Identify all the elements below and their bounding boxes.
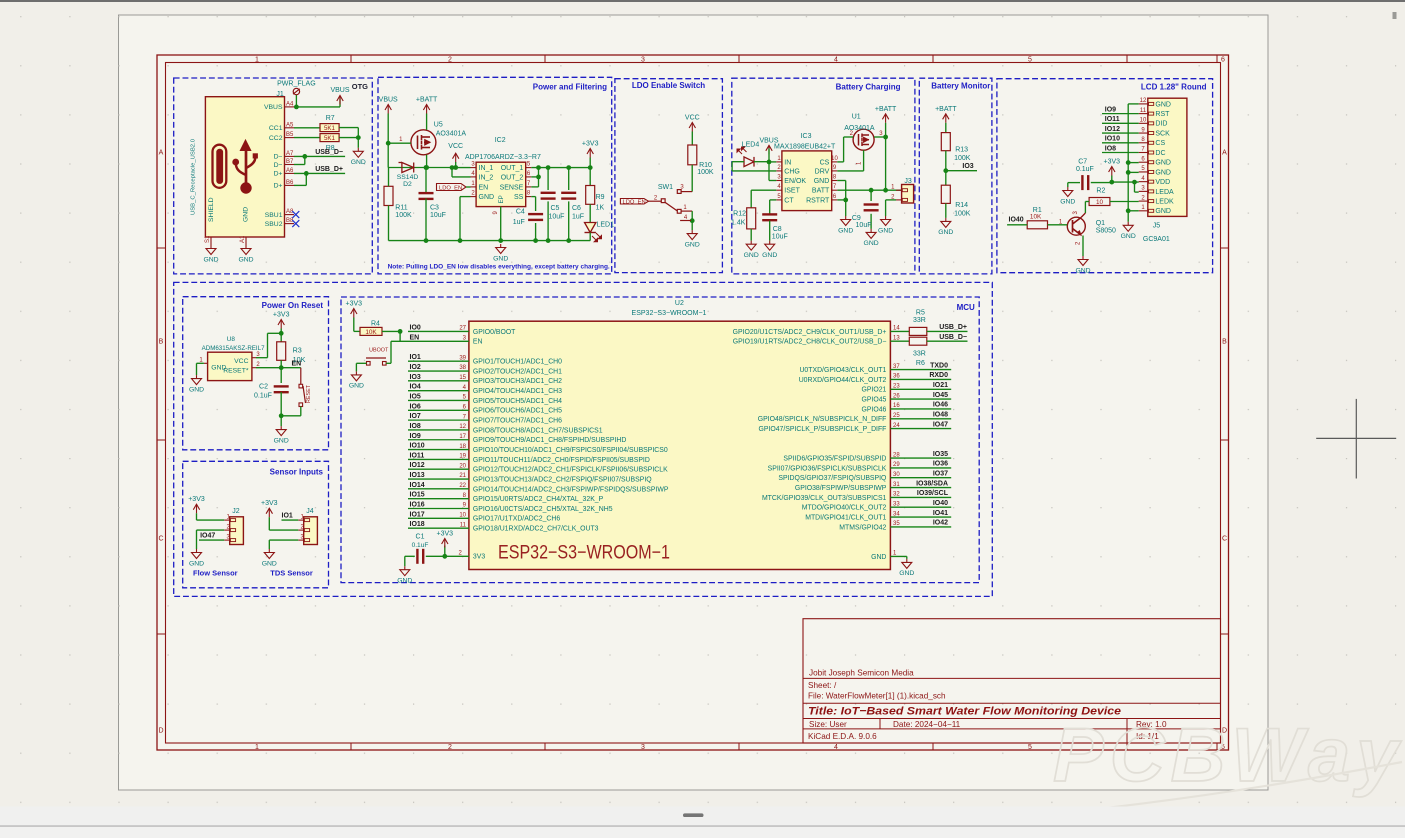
svg-text:Sheet: /: Sheet: / bbox=[808, 681, 837, 690]
svg-text:12: 12 bbox=[459, 424, 466, 430]
svg-text:D+: D+ bbox=[274, 183, 283, 190]
svg-text:SBU2: SBU2 bbox=[265, 221, 283, 228]
svg-text:33: 33 bbox=[893, 501, 900, 507]
svg-text:37: 37 bbox=[893, 364, 900, 370]
svg-text:GPIO8/TOUCH8/ADC1_CH7/SUBSPICS: GPIO8/TOUCH8/ADC1_CH7/SUBSPICS1 bbox=[473, 427, 603, 434]
svg-text:USB_D+: USB_D+ bbox=[315, 166, 343, 173]
svg-text:ISET: ISET bbox=[784, 188, 800, 195]
svg-text:R4: R4 bbox=[371, 321, 380, 328]
svg-text:IO11: IO11 bbox=[410, 452, 425, 459]
svg-text:Power On Reset: Power On Reset bbox=[262, 301, 324, 310]
svg-text:B5: B5 bbox=[286, 132, 294, 138]
svg-text:IO7: IO7 bbox=[410, 413, 421, 420]
svg-text:LDO_EN: LDO_EN bbox=[439, 185, 462, 191]
svg-text:GND: GND bbox=[1155, 208, 1171, 215]
svg-text:GND: GND bbox=[1121, 233, 1136, 240]
svg-text:GND: GND bbox=[189, 386, 204, 393]
svg-text:IO2: IO2 bbox=[410, 364, 421, 371]
svg-text:23: 23 bbox=[893, 384, 900, 390]
svg-text:IO1: IO1 bbox=[410, 354, 421, 361]
svg-text:GPIO6/TOUCH6/ADC1_CH5: GPIO6/TOUCH6/ADC1_CH5 bbox=[473, 408, 562, 415]
svg-text:R14: R14 bbox=[955, 202, 968, 209]
svg-text:IO40: IO40 bbox=[933, 500, 948, 507]
svg-text:C5: C5 bbox=[551, 205, 560, 212]
svg-text:GND: GND bbox=[351, 159, 366, 166]
svg-text:Jobit Joseph Semicon Media: Jobit Joseph Semicon Media bbox=[809, 669, 914, 678]
svg-text:PCBWay: PCBWay bbox=[1053, 713, 1404, 798]
svg-text:IO16: IO16 bbox=[410, 502, 425, 509]
svg-text:10uF: 10uF bbox=[430, 212, 446, 219]
svg-text:GND: GND bbox=[1155, 101, 1171, 108]
svg-text:IC2: IC2 bbox=[495, 137, 506, 144]
svg-text:J3: J3 bbox=[904, 178, 912, 185]
svg-text:EP: EP bbox=[498, 195, 505, 203]
svg-text:GPIO19/U1RTS/ADC2_CH8/CLK_OUT2: GPIO19/U1RTS/ADC2_CH8/CLK_OUT2/USB_D− bbox=[733, 339, 887, 346]
svg-text:SS: SS bbox=[514, 194, 524, 201]
svg-text:MTCK/GPIO39/CLK_OUT3/SUBSPICS1: MTCK/GPIO39/CLK_OUT3/SUBSPICS1 bbox=[762, 495, 887, 502]
svg-text:IO21: IO21 bbox=[933, 382, 948, 389]
svg-text:R12: R12 bbox=[733, 211, 746, 218]
svg-text:31: 31 bbox=[893, 482, 900, 488]
svg-text:GPIO4/TOUCH4/ADC1_CH3: GPIO4/TOUCH4/ADC1_CH3 bbox=[473, 388, 562, 395]
svg-text:100K: 100K bbox=[954, 211, 971, 218]
svg-text:IO39/SCL: IO39/SCL bbox=[917, 490, 949, 497]
svg-text:GPIO20/U1CTS/ADC2_CH9/CLK_OUT1: GPIO20/U1CTS/ADC2_CH9/CLK_OUT1/USB_D+ bbox=[733, 329, 887, 336]
svg-text:10K: 10K bbox=[365, 329, 377, 336]
svg-text:OTG: OTG bbox=[352, 82, 368, 91]
svg-text:10: 10 bbox=[831, 156, 838, 162]
svg-text:IO10: IO10 bbox=[410, 443, 425, 450]
svg-text:+BATT: +BATT bbox=[935, 106, 957, 113]
svg-text:S8050: S8050 bbox=[1096, 228, 1116, 235]
svg-text:D: D bbox=[158, 728, 163, 735]
svg-text:IO37: IO37 bbox=[933, 471, 948, 478]
svg-text:+3V3: +3V3 bbox=[1104, 159, 1121, 166]
svg-text:U1: U1 bbox=[852, 114, 861, 121]
svg-text:IO40: IO40 bbox=[1009, 217, 1024, 224]
svg-text:USB_D+: USB_D+ bbox=[939, 324, 967, 331]
svg-text:B: B bbox=[159, 339, 164, 346]
svg-text:GND: GND bbox=[479, 194, 495, 201]
svg-text:RESET: RESET bbox=[306, 384, 312, 403]
svg-text:EN: EN bbox=[410, 334, 420, 341]
svg-text:17: 17 bbox=[459, 434, 466, 440]
svg-text:Date: 2024−04−11: Date: 2024−04−11 bbox=[893, 720, 961, 729]
svg-text:SCK: SCK bbox=[1155, 130, 1170, 137]
svg-text:C: C bbox=[1222, 536, 1227, 543]
svg-text:GC9A01: GC9A01 bbox=[1143, 236, 1170, 243]
svg-text:GPIO9/TOUCH9/ADC1_CH8/FSPIHD/S: GPIO9/TOUCH9/ADC1_CH8/FSPIHD/SUBSPIHD bbox=[473, 437, 626, 444]
svg-text:39: 39 bbox=[459, 355, 466, 361]
svg-text:R10: R10 bbox=[699, 162, 712, 169]
svg-text:IC3: IC3 bbox=[801, 133, 812, 140]
svg-text:IO3: IO3 bbox=[410, 374, 421, 381]
svg-text:C8: C8 bbox=[773, 226, 782, 233]
svg-text:GPIO21: GPIO21 bbox=[861, 387, 886, 394]
svg-text:J1: J1 bbox=[276, 91, 284, 98]
svg-text:5K1: 5K1 bbox=[324, 125, 336, 132]
svg-text:+3V3: +3V3 bbox=[582, 141, 599, 148]
svg-text:R3: R3 bbox=[293, 346, 302, 355]
svg-text:U5: U5 bbox=[434, 122, 443, 129]
svg-text:IO4: IO4 bbox=[410, 384, 421, 391]
svg-text:Size: User: Size: User bbox=[809, 720, 847, 729]
svg-text:SHIELD: SHIELD bbox=[208, 197, 215, 222]
svg-text:IO47: IO47 bbox=[933, 421, 948, 428]
svg-text:+3V3: +3V3 bbox=[261, 500, 278, 507]
svg-text:RSTRT: RSTRT bbox=[806, 197, 830, 204]
svg-text:18: 18 bbox=[459, 444, 466, 450]
svg-text:ESP32−S3−WROOM−1: ESP32−S3−WROOM−1 bbox=[632, 310, 707, 317]
svg-text:0.1uF: 0.1uF bbox=[254, 393, 272, 400]
svg-text:VBUS: VBUS bbox=[264, 104, 283, 111]
svg-text:Battery Monitor: Battery Monitor bbox=[931, 82, 990, 91]
svg-text:R9: R9 bbox=[596, 194, 605, 201]
svg-text:1: 1 bbox=[255, 57, 259, 64]
svg-text:GPIO0/BOOT: GPIO0/BOOT bbox=[473, 329, 516, 336]
svg-text:GND: GND bbox=[1075, 267, 1090, 274]
svg-text:GND: GND bbox=[397, 578, 412, 585]
svg-text:GND: GND bbox=[762, 252, 777, 259]
svg-text:IO17: IO17 bbox=[410, 511, 425, 518]
svg-text:22: 22 bbox=[459, 483, 466, 489]
svg-text:GPIO10/TOUCH10/ADC1_CH9/FSPICS: GPIO10/TOUCH10/ADC1_CH9/FSPICS0/FSPII04/… bbox=[473, 447, 668, 454]
svg-text:U2: U2 bbox=[675, 300, 684, 307]
svg-text:LCD 1.28" Round: LCD 1.28" Round bbox=[1141, 82, 1207, 91]
svg-text:34: 34 bbox=[893, 511, 900, 517]
svg-text:+BATT: +BATT bbox=[416, 97, 438, 104]
svg-text:Q1: Q1 bbox=[1096, 220, 1105, 227]
svg-text:SBU1: SBU1 bbox=[265, 212, 283, 219]
svg-text:30: 30 bbox=[893, 472, 900, 478]
svg-text:CS: CS bbox=[820, 159, 830, 166]
svg-text:TXD0: TXD0 bbox=[930, 362, 948, 369]
svg-text:C: C bbox=[158, 536, 163, 543]
svg-text:GND: GND bbox=[878, 227, 893, 234]
svg-text:R5: R5 bbox=[916, 310, 925, 317]
svg-text:MTMS/GPIO42: MTMS/GPIO42 bbox=[839, 524, 886, 531]
svg-text:10: 10 bbox=[1140, 118, 1147, 124]
svg-text:35: 35 bbox=[893, 521, 900, 527]
svg-text:29: 29 bbox=[893, 462, 900, 468]
svg-text:DID: DID bbox=[1155, 121, 1167, 128]
svg-text:4: 4 bbox=[834, 57, 838, 64]
svg-text:IO38/SDA: IO38/SDA bbox=[916, 480, 948, 487]
svg-text:0.1uF: 0.1uF bbox=[1076, 166, 1094, 173]
svg-text:2: 2 bbox=[448, 744, 452, 751]
svg-text:EN: EN bbox=[473, 339, 483, 346]
svg-text:IO6: IO6 bbox=[410, 403, 421, 410]
svg-text:GPIO11/TOUCH11/ADC2_CH0/FSPID/: GPIO11/TOUCH11/ADC2_CH0/FSPID/FSPII05/SU… bbox=[473, 457, 650, 464]
svg-text:100K: 100K bbox=[395, 212, 412, 219]
svg-text:RXD0: RXD0 bbox=[929, 372, 948, 379]
svg-text:GND: GND bbox=[274, 437, 289, 444]
svg-text:20: 20 bbox=[459, 463, 466, 469]
svg-text:IO47: IO47 bbox=[200, 533, 215, 540]
svg-text:USB_D−: USB_D− bbox=[315, 149, 343, 156]
svg-text:CC1: CC1 bbox=[269, 125, 283, 132]
svg-text:GPIO13/TOUCH13/ADC2_CH2/FSPIQ/: GPIO13/TOUCH13/ADC2_CH2/FSPIQ/FSPII07/SU… bbox=[473, 476, 652, 483]
svg-text:IN: IN bbox=[784, 159, 791, 166]
svg-text:GPIO12/TOUCH12/ADC2_CH1/FSPICL: GPIO12/TOUCH12/ADC2_CH1/FSPICLK/FSPII06/… bbox=[473, 467, 668, 474]
svg-text:R2: R2 bbox=[1096, 188, 1105, 195]
svg-text:LDO_EN: LDO_EN bbox=[623, 199, 646, 205]
svg-text:U0RXD/GPIO44/CLK_OUT2: U0RXD/GPIO44/CLK_OUT2 bbox=[799, 377, 887, 384]
svg-text:MAX1898EUB42+T: MAX1898EUB42+T bbox=[774, 144, 836, 151]
svg-text:LEDA: LEDA bbox=[1155, 189, 1174, 196]
svg-text:GND: GND bbox=[493, 255, 508, 262]
svg-text:UBOOT: UBOOT bbox=[369, 348, 389, 354]
svg-text:IO13: IO13 bbox=[410, 472, 425, 479]
svg-text:CS: CS bbox=[1155, 140, 1165, 147]
svg-text:26: 26 bbox=[893, 393, 900, 399]
svg-text:U0TXD/GPIO43/CLK_OUT1: U0TXD/GPIO43/CLK_OUT1 bbox=[799, 367, 886, 374]
svg-text:IO1: IO1 bbox=[282, 513, 293, 520]
svg-text:GPIO3/TOUCH3/ADC1_CH2: GPIO3/TOUCH3/ADC1_CH2 bbox=[473, 378, 562, 385]
svg-text:IO18: IO18 bbox=[410, 521, 425, 528]
svg-text:GND: GND bbox=[243, 207, 250, 222]
svg-text:IO42: IO42 bbox=[933, 520, 948, 527]
svg-text:SS14D: SS14D bbox=[397, 174, 419, 181]
svg-text:C1: C1 bbox=[416, 534, 425, 541]
svg-text:IO5: IO5 bbox=[410, 393, 421, 400]
svg-text:GND: GND bbox=[899, 570, 914, 577]
svg-text:A6: A6 bbox=[286, 168, 294, 174]
svg-text:GND: GND bbox=[864, 240, 879, 247]
svg-text:VCC: VCC bbox=[685, 115, 700, 122]
svg-text:+3V3: +3V3 bbox=[346, 301, 363, 308]
svg-text:GND: GND bbox=[871, 554, 886, 561]
svg-text:27: 27 bbox=[459, 326, 466, 332]
svg-text:SPII07/GPIO36/FSPICLK/SUBSPICL: SPII07/GPIO36/FSPICLK/SUBSPICLK bbox=[768, 465, 887, 472]
svg-text:10K: 10K bbox=[1030, 214, 1042, 221]
svg-text:IO35: IO35 bbox=[933, 451, 948, 458]
svg-text:1: 1 bbox=[255, 744, 259, 751]
svg-text:16: 16 bbox=[893, 403, 900, 409]
svg-text:C2: C2 bbox=[259, 384, 268, 391]
svg-text:B6: B6 bbox=[286, 180, 294, 186]
svg-text:C3: C3 bbox=[430, 205, 439, 212]
svg-text:+3V3: +3V3 bbox=[273, 312, 290, 319]
svg-text:VCC: VCC bbox=[234, 358, 248, 365]
svg-text:LED1: LED1 bbox=[597, 221, 615, 228]
svg-text:+BATT: +BATT bbox=[875, 106, 897, 113]
svg-text:11: 11 bbox=[460, 522, 467, 528]
svg-text:B7: B7 bbox=[286, 159, 294, 165]
svg-text:ESP32−S3−WROOM−1: ESP32−S3−WROOM−1 bbox=[498, 541, 670, 563]
svg-text:IN_1: IN_1 bbox=[479, 165, 494, 172]
svg-text:VCC: VCC bbox=[448, 143, 463, 150]
svg-text:TDS Sensor: TDS Sensor bbox=[270, 569, 313, 578]
svg-text:J2: J2 bbox=[232, 508, 240, 515]
svg-text:38: 38 bbox=[459, 365, 466, 371]
svg-text:10uF: 10uF bbox=[856, 222, 872, 229]
svg-text:MTDO/GPIO40/CLK_OUT2: MTDO/GPIO40/CLK_OUT2 bbox=[802, 505, 887, 512]
svg-text:R7: R7 bbox=[326, 115, 335, 122]
svg-text:OUT_1: OUT_1 bbox=[501, 165, 524, 172]
svg-text:C4: C4 bbox=[516, 209, 525, 216]
svg-text:GPIO17/U1TXD/ADC2_CH6: GPIO17/U1TXD/ADC2_CH6 bbox=[473, 516, 560, 523]
svg-text:+3V3: +3V3 bbox=[437, 531, 454, 538]
svg-text:EN: EN bbox=[292, 361, 302, 368]
svg-text:LEDK: LEDK bbox=[1155, 199, 1174, 206]
svg-text:IO45: IO45 bbox=[933, 392, 948, 399]
svg-text:1uF: 1uF bbox=[513, 219, 525, 226]
svg-text:GPIO18/U1RXD/ADC2_CH7/CLK_OUT3: GPIO18/U1RXD/ADC2_CH7/CLK_OUT3 bbox=[473, 526, 599, 533]
svg-text:U8: U8 bbox=[227, 336, 236, 343]
svg-text:100K: 100K bbox=[954, 155, 971, 162]
svg-text:GPIO46: GPIO46 bbox=[861, 406, 886, 413]
svg-text:MCU: MCU bbox=[957, 303, 975, 312]
svg-text:13: 13 bbox=[893, 335, 900, 341]
svg-text:GPIO45: GPIO45 bbox=[861, 397, 886, 404]
svg-text:36: 36 bbox=[893, 374, 900, 380]
svg-text:CC2: CC2 bbox=[269, 135, 283, 142]
svg-text:EN/OK: EN/OK bbox=[784, 178, 806, 185]
svg-text:GPIO14/TOUCH14/ADC2_CH3/FSPIWP: GPIO14/TOUCH14/ADC2_CH3/FSPIWP/FSPIDQS/S… bbox=[473, 486, 669, 493]
svg-text:AO3401A: AO3401A bbox=[436, 131, 467, 138]
svg-text:SPIDQS/GPIO37/FSPIQ/SUBSPIQ: SPIDQS/GPIO37/FSPIQ/SUBSPIQ bbox=[778, 475, 887, 482]
svg-text:IO9: IO9 bbox=[1105, 106, 1116, 113]
svg-text:USB_D−: USB_D− bbox=[939, 334, 967, 341]
svg-text:A1: A1 bbox=[240, 235, 246, 243]
svg-text:GPIO5/TOUCH5/ADC1_CH4: GPIO5/TOUCH5/ADC1_CH4 bbox=[473, 398, 562, 405]
svg-text:VBUS: VBUS bbox=[379, 97, 398, 104]
svg-text:GPIO48/SPICLK_N/SUBSPICLK_N_DI: GPIO48/SPICLK_N/SUBSPICLK_N_DIFF bbox=[758, 416, 887, 423]
svg-text:+3V3: +3V3 bbox=[188, 496, 205, 503]
svg-text:IO8: IO8 bbox=[410, 423, 421, 430]
svg-text:3: 3 bbox=[641, 57, 645, 64]
svg-text:GND: GND bbox=[838, 227, 853, 234]
svg-text:0.1uF: 0.1uF bbox=[412, 542, 429, 549]
svg-text:KiCad E.D.A. 9.0.6: KiCad E.D.A. 9.0.6 bbox=[808, 732, 877, 741]
svg-text:CT: CT bbox=[784, 197, 794, 204]
svg-text:19: 19 bbox=[459, 454, 466, 460]
svg-text:OUT_2: OUT_2 bbox=[501, 174, 524, 181]
svg-text:GND: GND bbox=[814, 178, 830, 185]
svg-text:GND: GND bbox=[1155, 169, 1171, 176]
svg-text:DC: DC bbox=[1155, 150, 1165, 157]
svg-text:6: 6 bbox=[1221, 57, 1225, 64]
svg-text:Sensor Inputs: Sensor Inputs bbox=[270, 468, 324, 477]
svg-text:12: 12 bbox=[1140, 98, 1147, 104]
svg-text:GND: GND bbox=[1060, 198, 1075, 205]
svg-text:IO12: IO12 bbox=[1105, 126, 1120, 133]
svg-text:GPIO1/TOUCH1/ADC1_CH0: GPIO1/TOUCH1/ADC1_CH0 bbox=[473, 359, 562, 366]
svg-text:LDO Enable Switch: LDO Enable Switch bbox=[632, 81, 705, 90]
svg-text:GPIO16/U0CTS/ADC2_CH5/XTAL_32K: GPIO16/U0CTS/ADC2_CH5/XTAL_32K_NH5 bbox=[473, 506, 613, 513]
svg-text:GPIO7/TOUCH7/ADC1_CH6: GPIO7/TOUCH7/ADC1_CH6 bbox=[473, 418, 562, 425]
svg-text:B: B bbox=[1222, 339, 1227, 346]
svg-text:1uF: 1uF bbox=[572, 214, 584, 221]
svg-text:33R: 33R bbox=[913, 317, 926, 324]
svg-text:CHG: CHG bbox=[784, 168, 800, 175]
svg-text:File: WaterFlowMeter[1] (1).ki: File: WaterFlowMeter[1] (1).kicad_sch bbox=[808, 692, 946, 701]
svg-text:R6: R6 bbox=[916, 360, 925, 367]
svg-text:D−: D− bbox=[274, 162, 283, 169]
svg-text:MTDI/GPIO41/CLK_OUT1: MTDI/GPIO41/CLK_OUT1 bbox=[805, 515, 886, 522]
svg-text:J4: J4 bbox=[306, 508, 314, 515]
svg-text:D+: D+ bbox=[274, 171, 283, 178]
svg-text:28: 28 bbox=[893, 452, 900, 458]
svg-text:3V3: 3V3 bbox=[473, 554, 485, 561]
svg-text:GND: GND bbox=[349, 383, 364, 390]
svg-text:IO12: IO12 bbox=[410, 462, 425, 469]
svg-text:PWR_FLAG: PWR_FLAG bbox=[277, 81, 316, 88]
svg-text:C9: C9 bbox=[852, 215, 861, 222]
svg-text:Flow Sensor: Flow Sensor bbox=[193, 569, 238, 578]
svg-text:Power and Filtering: Power and Filtering bbox=[533, 83, 607, 92]
svg-text:25: 25 bbox=[893, 413, 900, 419]
svg-text:C6: C6 bbox=[572, 205, 581, 212]
svg-text:10uF: 10uF bbox=[772, 234, 788, 241]
svg-text:D2: D2 bbox=[403, 181, 412, 188]
svg-text:GND: GND bbox=[262, 560, 277, 567]
svg-text:D−: D− bbox=[274, 154, 283, 161]
svg-text:33R: 33R bbox=[913, 351, 926, 358]
svg-text:A: A bbox=[1222, 150, 1227, 157]
svg-text:IO8: IO8 bbox=[1105, 145, 1116, 152]
svg-text:GPIO47/SPICLK_P/SUBSPICLK_P_DI: GPIO47/SPICLK_P/SUBSPICLK_P_DIFF bbox=[758, 426, 886, 433]
svg-text:RESET*: RESET* bbox=[223, 368, 249, 375]
svg-text:15: 15 bbox=[459, 375, 466, 381]
svg-text:4: 4 bbox=[834, 744, 838, 751]
svg-text:21: 21 bbox=[459, 473, 466, 479]
svg-text:J5: J5 bbox=[1153, 223, 1161, 230]
svg-text:IO48: IO48 bbox=[933, 412, 948, 419]
svg-text:GND: GND bbox=[203, 256, 218, 263]
svg-text:GPIO38/FSPIWP/SUBSPIWP: GPIO38/FSPIWP/SUBSPIWP bbox=[795, 485, 887, 492]
svg-text:GND: GND bbox=[189, 560, 204, 567]
svg-text:IN_2: IN_2 bbox=[479, 174, 494, 181]
svg-text:5: 5 bbox=[1028, 57, 1032, 64]
svg-text:S1: S1 bbox=[205, 235, 211, 243]
svg-text:VBUS: VBUS bbox=[330, 87, 349, 94]
svg-text:VBUS: VBUS bbox=[759, 137, 778, 144]
svg-text:Note: Pulling LDO_EN low disab: Note: Pulling LDO_EN low disables everyt… bbox=[388, 263, 610, 270]
svg-text:10: 10 bbox=[459, 513, 466, 519]
svg-text:C7: C7 bbox=[1078, 159, 1087, 166]
svg-text:IO0: IO0 bbox=[410, 324, 421, 331]
svg-text:SENSE: SENSE bbox=[500, 184, 524, 191]
svg-text:ADP1706ARDZ−3.3−R7: ADP1706ARDZ−3.3−R7 bbox=[465, 154, 541, 161]
svg-text:IO41: IO41 bbox=[933, 510, 948, 517]
svg-text:GND: GND bbox=[685, 241, 700, 248]
svg-text:BATT: BATT bbox=[812, 188, 830, 195]
svg-text:1.4K: 1.4K bbox=[731, 220, 746, 227]
svg-text:A7: A7 bbox=[286, 151, 294, 157]
svg-text:A5: A5 bbox=[286, 122, 294, 128]
svg-text:3: 3 bbox=[641, 744, 645, 751]
svg-text:EN: EN bbox=[479, 184, 489, 191]
svg-text:A4: A4 bbox=[286, 101, 294, 107]
svg-text:5: 5 bbox=[1028, 744, 1032, 751]
svg-text:GND: GND bbox=[744, 252, 759, 259]
svg-text:ADM6315AKSZ-REIL7: ADM6315AKSZ-REIL7 bbox=[202, 345, 265, 352]
svg-text:Battery Charging: Battery Charging bbox=[836, 83, 901, 92]
svg-text:32: 32 bbox=[893, 492, 900, 498]
svg-text:1K: 1K bbox=[596, 205, 605, 212]
svg-text:RST: RST bbox=[1155, 111, 1170, 118]
svg-text:24: 24 bbox=[893, 423, 900, 429]
svg-text:GND: GND bbox=[238, 256, 253, 263]
svg-text:10: 10 bbox=[1096, 199, 1104, 206]
svg-text:DRV: DRV bbox=[815, 168, 830, 175]
svg-text:SPIID6/GPIO35/FSPID/SUBSPID: SPIID6/GPIO35/FSPID/SUBSPID bbox=[783, 456, 886, 463]
svg-text:GPIO2/TOUCH2/ADC1_CH1: GPIO2/TOUCH2/ADC1_CH1 bbox=[473, 368, 562, 375]
svg-text:2: 2 bbox=[448, 57, 452, 64]
svg-text:IO15: IO15 bbox=[410, 492, 425, 499]
